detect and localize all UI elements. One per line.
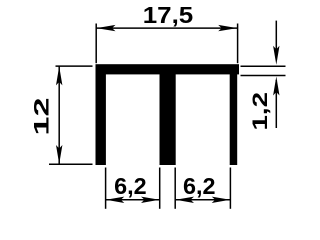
- arrowhead right of dimension 6,2 left: [141, 197, 160, 203]
- dimension line 6,2 left: [106, 199, 159, 201]
- arrowhead left of dimension 17,5: [97, 25, 116, 31]
- dimension line 6,2 right: [176, 199, 230, 201]
- profile middle leg: [160, 74, 176, 165]
- arrowhead right of dimension 6,2 right: [212, 197, 231, 203]
- dimension line 12: [58, 66, 60, 164]
- arrowhead right of dimension 17,5: [218, 25, 237, 31]
- svg-text:6,2: 6,2: [114, 173, 147, 199]
- arrowhead left of dimension 6,2 right: [176, 197, 195, 203]
- extension line left of dimension 6,2 right: [174, 168, 176, 209]
- svg-text:1,2: 1,2: [248, 92, 272, 131]
- extension line bottom of dimension 1,2: [241, 75, 286, 77]
- arrowhead up of dimension 1,2: [273, 77, 279, 96]
- profile right leg: [230, 74, 238, 165]
- extension line left of dimension 17,5: [95, 24, 97, 64]
- arrowhead left of dimension 6,2 left: [106, 197, 125, 203]
- svg-text:6,2: 6,2: [183, 173, 216, 199]
- extension line top of dimension 1,2: [241, 65, 286, 67]
- extension line right of dimension 6,2 right: [229, 168, 231, 209]
- arrowhead top of dimension 12: [56, 66, 62, 85]
- dimension line 1,2 lower segment: [275, 80, 277, 128]
- arrowhead bottom of dimension 12: [56, 145, 62, 164]
- svg-text:12: 12: [29, 97, 53, 135]
- dimension line 17,5: [97, 27, 238, 29]
- dimension line 1,2 upper segment: [275, 21, 277, 60]
- extension line left of dimension 6,2 left: [105, 168, 107, 209]
- extension line right of dimension 6,2 left: [159, 168, 161, 209]
- profile left leg: [96, 74, 106, 165]
- extension line bottom of dimension 12: [49, 163, 93, 165]
- extension line top of dimension 12: [56, 65, 93, 67]
- extension line right of dimension 17,5: [237, 24, 239, 64]
- profile top flange: [96, 64, 240, 74]
- svg-text:17,5: 17,5: [143, 2, 194, 28]
- arrowhead down of dimension 1,2: [273, 46, 279, 65]
